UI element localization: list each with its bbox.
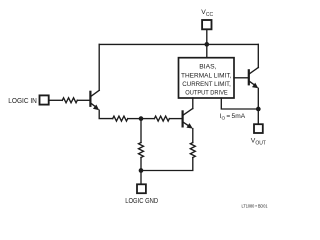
node output — [256, 107, 261, 112]
svg-text:VCC: VCC — [201, 9, 213, 18]
wire R2 to node A — [128, 118, 141, 120]
svg-text:LOGIC IN: LOGIC IN — [8, 98, 37, 105]
transistor Q3 — [183, 109, 193, 129]
wire rail to block top — [206, 44, 208, 57]
wire Q2 emitter to output node — [257, 88, 259, 109]
wire R3 to Q3 base — [169, 118, 181, 120]
terminal LOGIC GND — [137, 184, 146, 193]
wire R4 to node B — [140, 158, 142, 171]
resistor R2 — [113, 116, 128, 121]
label VOUT — [251, 138, 266, 147]
node A — [139, 116, 144, 121]
resistor R3 — [154, 116, 169, 121]
wire node B to LOGIC GND terminal — [140, 171, 142, 184]
label IO = 5mA — [220, 113, 246, 122]
transistor Q2 — [249, 68, 258, 89]
wire output node to VOUT terminal — [257, 109, 259, 124]
label LOGIC GND — [125, 198, 158, 205]
wire Q1 collector riser — [98, 44, 100, 90]
wire VCC lead — [206, 30, 208, 45]
block U1 bias/thermal/current/output-drive — [179, 58, 235, 98]
label VCC — [201, 9, 213, 18]
svg-text:VOUT: VOUT — [251, 138, 266, 147]
wire R5 bottom to node B — [141, 158, 193, 171]
caption part number — [242, 204, 268, 209]
wire R1 to Q1 base — [77, 99, 89, 101]
terminal VCC — [202, 20, 211, 29]
svg-text:BIAS,: BIAS, — [199, 64, 216, 71]
wire Q3 collector to block bottom — [192, 98, 194, 109]
wire Q2 collector riser — [257, 44, 259, 67]
wire block to Q2 base — [234, 77, 248, 79]
wire block bottom to output node — [221, 98, 258, 109]
svg-text:LOGIC GND: LOGIC GND — [125, 198, 158, 205]
wire Q3 emitter to R5 — [192, 129, 194, 143]
svg-text:CURRENT LIMIT,: CURRENT LIMIT, — [182, 81, 231, 88]
node B — [139, 168, 144, 173]
wire LOGIC IN to R1 — [50, 99, 63, 101]
transistor Q1 — [90, 90, 99, 110]
wire top rail — [99, 43, 258, 45]
resistor R4 — [139, 143, 144, 158]
label LOGIC IN — [8, 98, 37, 105]
svg-text:THERMAL LIMIT,: THERMAL LIMIT, — [181, 72, 232, 79]
svg-text:IO=5mA: IO=5mA — [220, 113, 246, 122]
node VCC rail junction — [204, 42, 209, 47]
wire node A to R4 — [140, 119, 142, 143]
resistor R1 — [62, 98, 77, 103]
wire node A to R3 — [141, 118, 154, 120]
svg-text:LT1080 • BD01: LT1080 • BD01 — [242, 204, 268, 209]
terminal VOUT — [254, 124, 263, 133]
label U1 text — [181, 64, 232, 97]
wire Q1 emitter down and right — [99, 110, 113, 118]
svg-text:OUTPUT DRIVE: OUTPUT DRIVE — [185, 90, 228, 97]
terminal LOGIC IN — [40, 95, 49, 104]
resistor R5 — [190, 143, 195, 158]
